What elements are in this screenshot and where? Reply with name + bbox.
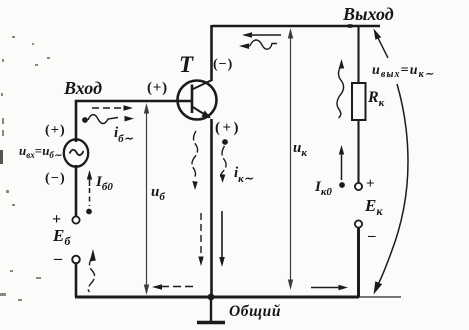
- svg-text:–: –: [53, 250, 63, 267]
- resistor Rк: [352, 83, 366, 120]
- svg-text:–: –: [367, 228, 376, 244]
- scan specks (decorative): [0, 36, 50, 301]
- wire source to battery: [75, 165, 78, 216]
- ground: [197, 297, 225, 323]
- svg-text:Общий: Общий: [229, 303, 281, 320]
- voltage arrow u_к: [288, 28, 293, 290]
- current arrow bottom rail left (dashed): [152, 284, 196, 290]
- wire Rк bottom lead: [357, 120, 359, 183]
- current arrow I_к0: [339, 145, 345, 188]
- junction blob on top rail: [346, 24, 353, 28]
- annotation curve u_вых to common: [374, 84, 409, 295]
- voltage arrow u_б: [144, 103, 149, 295]
- battery Eб terminal +: [72, 216, 79, 223]
- battery Eк terminal −: [355, 220, 362, 227]
- transistor T: [178, 80, 217, 120]
- source G1 (input AC source u_вх): [64, 139, 88, 166]
- current arrow I_б0: [86, 170, 92, 214]
- current squiggle arrow near Eб: [88, 249, 96, 292]
- battery Eк terminal +: [355, 183, 362, 190]
- svg-text:Вход: Вход: [63, 78, 102, 98]
- current arrow dashed down (emitter DC): [198, 213, 203, 266]
- svg-text:Выход: Выход: [342, 4, 394, 24]
- junction emitter/common: [208, 294, 215, 301]
- svg-text:(+): (+): [147, 80, 168, 96]
- current arrow i_б~ wavy: [82, 115, 134, 124]
- svg-text:(+): (+): [215, 120, 241, 136]
- wire emitter drop: [210, 119, 213, 297]
- battery Eб terminal −: [72, 256, 80, 264]
- svg-text:T: T: [179, 52, 194, 77]
- current arrow top rail left (solid): [242, 32, 281, 38]
- current arrow bottom rail right: [311, 285, 348, 291]
- current arrow i_к~ wavy from emitter node: [220, 139, 228, 183]
- wire input drop: [75, 100, 78, 142]
- svg-text:(−): (−): [213, 57, 233, 72]
- svg-text:(−): (−): [45, 171, 66, 186]
- wire base lead: [75, 100, 191, 103]
- annotation arrow to Выход terminal: [374, 29, 389, 59]
- wire battery to common rail: [75, 264, 78, 298]
- current arrow i_б dashed: [92, 105, 133, 111]
- current arrow top rail left (wavy i_к~): [239, 40, 277, 49]
- wire bottom common rail: [75, 296, 359, 299]
- current squiggle arrow through Rк: [337, 59, 344, 118]
- wire top rail: [212, 25, 380, 28]
- wire Rк top lead: [357, 25, 359, 83]
- wire collector riser: [210, 25, 213, 81]
- wire Eк to rail: [357, 228, 360, 297]
- svg-text:+: +: [366, 176, 375, 192]
- wire bottom rail thin extension: [359, 296, 401, 298]
- current squiggle arrow below base (i_э component): [192, 131, 198, 190]
- current arrow solid down (emitter total): [219, 211, 225, 267]
- svg-text:(+): (+): [45, 123, 66, 138]
